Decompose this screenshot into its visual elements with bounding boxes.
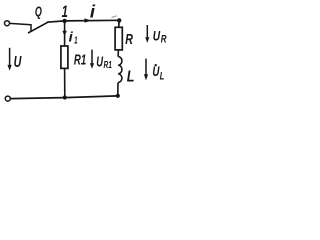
node (bottom-right corner) junction dot xyxy=(116,94,120,98)
switch Q blade xyxy=(28,22,49,33)
label i1 xyxy=(69,30,74,45)
current arrow i1 (down the R1 branch) xyxy=(62,31,66,37)
resistor R xyxy=(115,27,122,50)
node (top-right corner) junction dot xyxy=(117,18,121,22)
svg-text:U: U xyxy=(152,63,159,79)
svg-text:U: U xyxy=(14,53,23,71)
svg-text:L: L xyxy=(160,70,165,83)
switch Q post xyxy=(30,24,32,31)
svg-text:Q: Q xyxy=(35,4,42,19)
svg-text:1: 1 xyxy=(62,2,68,21)
label 1 xyxy=(62,2,68,21)
wire (switch to node 1 to top-right corner) xyxy=(47,20,119,22)
wire (R1 to bottom junction) xyxy=(64,68,66,97)
label L xyxy=(127,69,135,86)
voltage arrow uR1 xyxy=(91,50,93,64)
svg-text:R1: R1 xyxy=(104,58,113,70)
voltage arrow uL xyxy=(145,59,147,75)
svg-text:R: R xyxy=(125,30,133,47)
current arrow i (on top wire) xyxy=(84,18,91,22)
wire (L to bottom-right corner) xyxy=(117,83,119,96)
junction dot (bottom of R1 branch) xyxy=(63,95,67,99)
label uL (with dot above) xyxy=(155,64,157,66)
wire (node 1 down to R1) xyxy=(64,21,66,46)
voltage arrow uR xyxy=(146,25,148,38)
svg-text:L: L xyxy=(127,69,135,86)
resistor R1 xyxy=(61,46,68,68)
label uR xyxy=(153,28,161,44)
wire smudge xyxy=(112,16,117,18)
label R xyxy=(125,30,133,47)
svg-text:R1: R1 xyxy=(74,52,86,68)
wire (R to L) xyxy=(117,50,119,57)
terminal (top-left input) xyxy=(5,21,10,26)
label R1 xyxy=(74,52,86,68)
wire (corner down to R) xyxy=(118,21,120,28)
label Q xyxy=(35,4,42,19)
svg-text:U: U xyxy=(153,28,161,44)
terminal (bottom-left input) xyxy=(5,96,10,101)
svg-text:1: 1 xyxy=(74,34,78,46)
svg-text:R: R xyxy=(161,33,167,46)
voltage arrow U (source) xyxy=(9,48,11,67)
inductor L xyxy=(118,57,122,83)
node 1 junction dot xyxy=(62,19,66,23)
svg-text:U: U xyxy=(96,53,104,70)
wire (terminal to switch post) xyxy=(10,23,31,24)
label i xyxy=(90,2,96,22)
label uR1 xyxy=(96,53,104,70)
wire (bottom, left terminal to bottom-right corner) xyxy=(11,96,118,99)
label U xyxy=(14,53,23,71)
